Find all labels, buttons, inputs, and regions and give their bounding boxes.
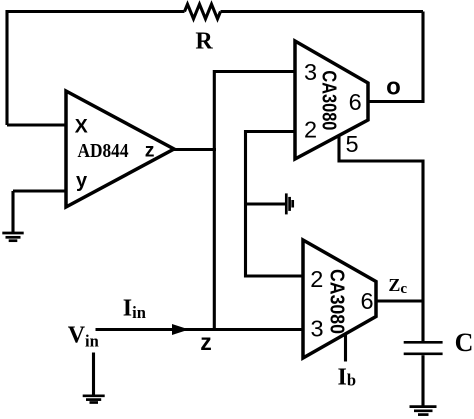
svg-text:y: y	[76, 170, 88, 192]
svg-text:6: 6	[349, 89, 362, 115]
wire pin 5 to capacitor node	[339, 136, 423, 342]
svg-text:R: R	[195, 29, 213, 55]
wire z output of AD844	[174, 148, 216, 151]
svg-text:AD844: AD844	[78, 141, 129, 162]
ground (y input)	[2, 233, 23, 241]
wire U3 output to node zc	[376, 299, 423, 302]
resistor R	[185, 4, 221, 19]
wire U2 output, node o, to right vertical	[368, 12, 423, 102]
ground (capacitor)	[410, 407, 437, 415]
svg-text:o: o	[386, 74, 401, 101]
svg-text:2: 2	[310, 266, 323, 292]
svg-text:z: z	[145, 140, 155, 162]
svg-text:3: 3	[310, 316, 323, 342]
svg-text:CA3080: CA3080	[318, 70, 340, 130]
op-amp U3 CA3080 lower	[303, 240, 376, 358]
svg-text:5: 5	[345, 131, 358, 157]
svg-text:CA3080: CA3080	[326, 269, 348, 334]
wire V_in input line	[96, 328, 304, 331]
ground (V_in)	[83, 396, 105, 403]
wire y input	[13, 189, 66, 192]
svg-text:X: X	[75, 116, 88, 138]
svg-text:C: C	[455, 328, 474, 357]
wire top right from resistor	[221, 10, 424, 13]
wire feedback loop: left vertical + top to resistor	[7, 12, 185, 126]
svg-text:z: z	[200, 329, 212, 355]
svg-text:3: 3	[304, 59, 317, 85]
wire ground stub sideways	[246, 202, 286, 205]
capacitor C	[404, 342, 443, 354]
op-amp U2 CA3080 upper	[295, 41, 368, 159]
wire X input	[7, 123, 66, 126]
wire capacitor to ground	[421, 355, 424, 406]
arrow I_in	[172, 324, 189, 335]
svg-text:6: 6	[360, 288, 373, 314]
wire I_b bias stub	[344, 334, 347, 362]
wire y ground stub	[11, 191, 14, 233]
wire bus to OTA pins 2	[246, 132, 304, 277]
ground (sideways)	[286, 193, 292, 214]
wire V_in ground stub	[92, 353, 95, 396]
svg-text:2: 2	[304, 117, 317, 143]
op-amp U1 AD844	[66, 91, 174, 207]
wire vertical bus z node	[214, 72, 295, 330]
